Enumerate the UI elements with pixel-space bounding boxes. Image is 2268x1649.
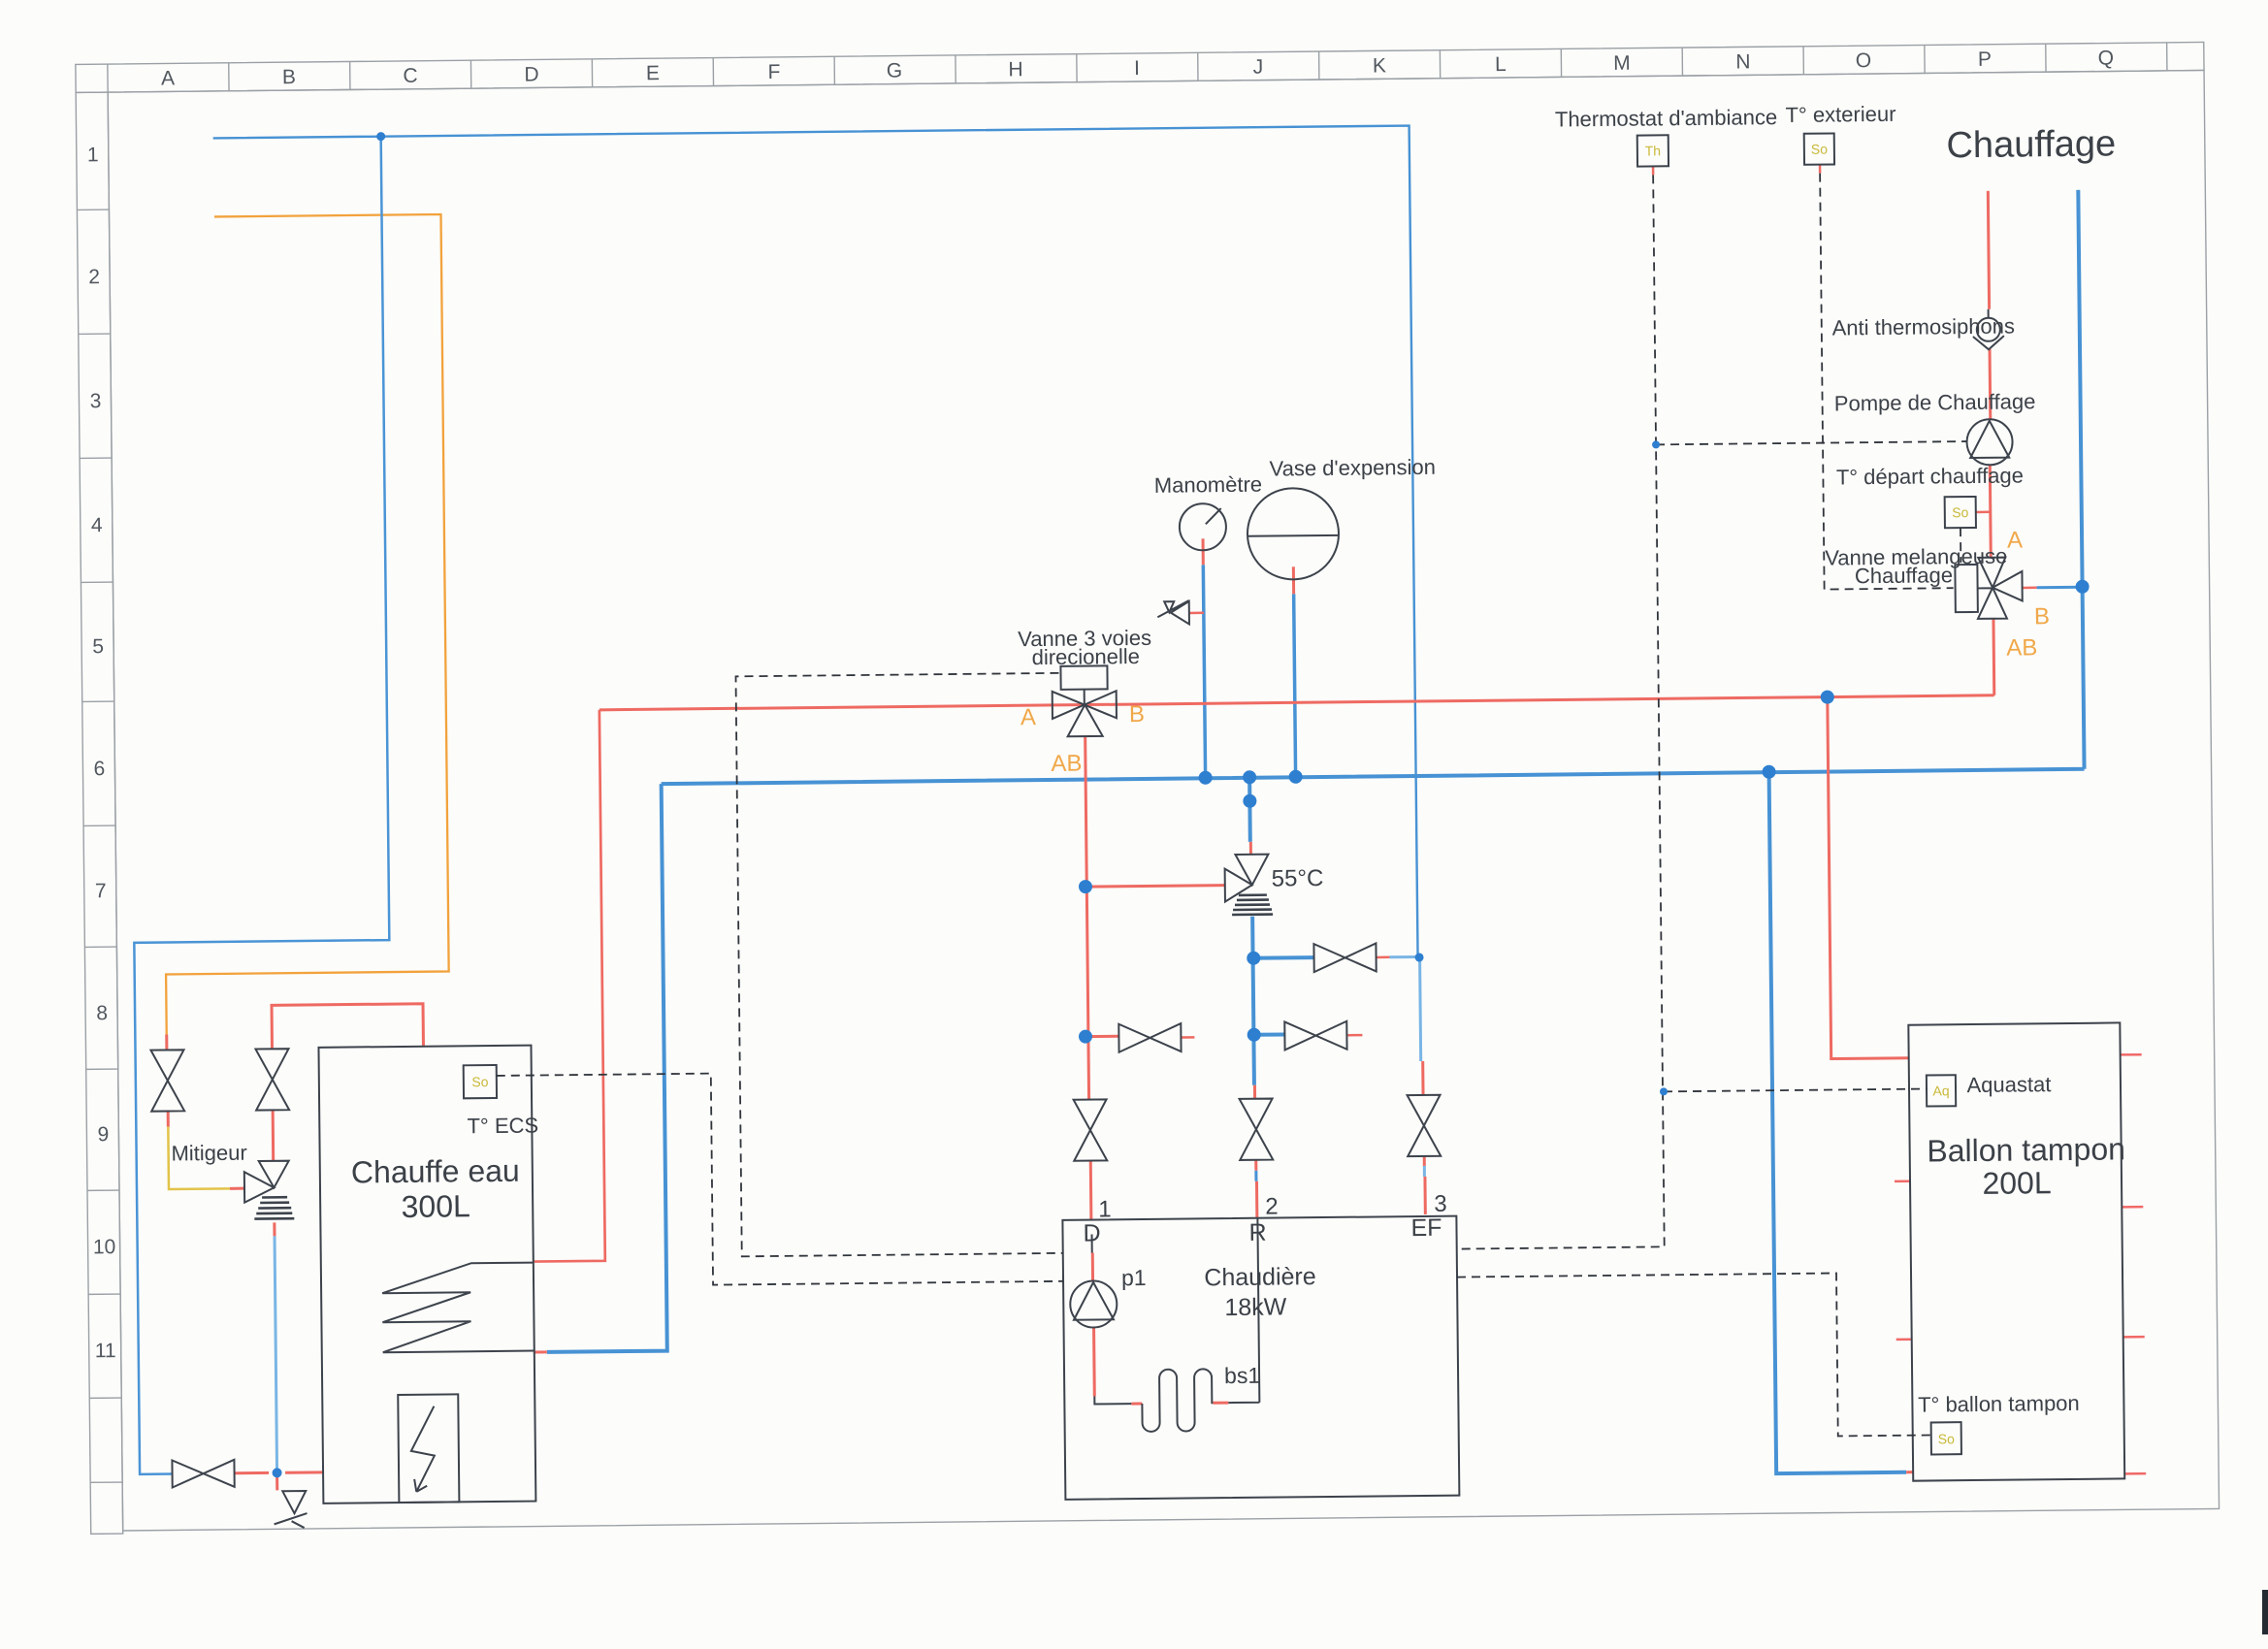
svg-text:200L: 200L	[1982, 1165, 2052, 1201]
svg-text:J: J	[1253, 56, 1264, 79]
electric heater box with lightning	[398, 1394, 459, 1503]
row boundaries	[77, 210, 122, 1482]
control: T depart sensor to actuator	[1960, 528, 1961, 563]
svg-text:So: So	[1952, 504, 1969, 520]
svg-text:Aquastat: Aquastat	[1966, 1072, 2051, 1097]
node: red main at ballon feed	[1821, 690, 1834, 703]
wire: R-column drop from blue main	[1247, 778, 1252, 842]
svg-text:So: So	[1938, 1431, 1956, 1446]
svg-text:So: So	[1811, 142, 1829, 157]
valve bottom-left shutoff	[172, 1460, 234, 1488]
svg-text:9: 9	[97, 1123, 109, 1146]
svg-text:B: B	[1129, 701, 1145, 727]
node: blue main at vase	[1289, 770, 1303, 784]
svg-text:P: P	[1978, 48, 1992, 71]
svg-text:D: D	[1083, 1219, 1100, 1246]
wire: red segment above valve V1	[165, 1035, 168, 1051]
header cell boundaries	[108, 43, 2167, 92]
svg-text:L: L	[1495, 53, 1507, 76]
vase d'expension	[1247, 488, 1340, 580]
tank Ballon tampon 200L	[1908, 1022, 2124, 1480]
wire: vanne melangeuse AB down to red main	[1992, 619, 1995, 695]
node: top line / C drop	[376, 132, 385, 141]
valve boiler 2 (R)	[1240, 1099, 1274, 1160]
valve drain row-1080 R	[1284, 1021, 1346, 1051]
node: bottom-left drain junction	[273, 1468, 282, 1477]
DASHED	[487, 172, 1977, 1450]
svg-text:Chauffage: Chauffage	[1946, 123, 2116, 166]
wire: red feed to ballon tampon	[1828, 696, 1909, 1059]
sensor box So T depart chauffage	[1945, 497, 1976, 528]
svg-text:6: 6	[93, 758, 105, 780]
sensor box So T ECS	[464, 1065, 497, 1098]
control: aquastat branch	[1664, 1089, 1927, 1092]
svg-text:Mitigeur: Mitigeur	[171, 1141, 247, 1166]
svg-text:Pompe de Chauffage: Pompe de Chauffage	[1834, 389, 2036, 415]
svg-text:Ballon tampon: Ballon tampon	[1927, 1131, 2125, 1168]
control: boiler to T ballon tampon sensor	[1457, 1272, 1931, 1439]
wire: ballon tampon side stubs	[1894, 1054, 2147, 1476]
wire: yellow segment below valve to mitigeur	[168, 1126, 230, 1189]
node: thermostat pump branch	[1652, 440, 1660, 448]
wire: red stub ballon lower port	[1906, 1471, 1913, 1473]
manometer	[1180, 503, 1227, 551]
svg-text:H: H	[1008, 58, 1022, 81]
svg-text:D: D	[524, 63, 538, 85]
svg-text:Q: Q	[2098, 47, 2115, 69]
svg-text:Aq: Aq	[1932, 1083, 1949, 1098]
wire: row-1080 D branch stub	[1085, 1035, 1118, 1038]
svg-text:1: 1	[1098, 1196, 1112, 1222]
node: R drop secondary	[1243, 794, 1256, 808]
svg-text:p1: p1	[1121, 1265, 1147, 1290]
anti-thermosiphon check valve	[1977, 318, 2000, 341]
wire: EF column valve stubs to boiler port 3	[1421, 1061, 1424, 1095]
svg-text:Chauffe eau: Chauffe eau	[351, 1153, 520, 1190]
valve boiler 3 (EF)	[1408, 1095, 1442, 1156]
wire: R-column below 55C valve down to valve R	[1252, 917, 1254, 1085]
sensor box Th thermostat d'ambiance	[1637, 135, 1669, 166]
svg-text:55°C: 55°C	[1272, 865, 1324, 892]
wire: boiler internal pump to serpentine	[1092, 1328, 1096, 1397]
svg-text:EF: EF	[1410, 1214, 1442, 1242]
svg-text:direcionelle: direcionelle	[1032, 644, 1141, 669]
node: R column drain branch	[1247, 1028, 1261, 1042]
node: blue main at R drop	[1243, 770, 1256, 784]
wire: drain stub	[275, 1472, 278, 1490]
vanne melangeuse chauffage	[1955, 557, 2023, 619]
svg-text:11: 11	[95, 1340, 116, 1362]
svg-text:T° départ chauffage: T° départ chauffage	[1836, 463, 2024, 489]
svg-text:3: 3	[1434, 1191, 1447, 1217]
control: thermostat d'ambiance line to boiler	[1445, 175, 1665, 1248]
valve V2 (ECS hot column)	[255, 1049, 289, 1110]
pump p1	[1070, 1280, 1118, 1328]
svg-text:8: 8	[96, 1002, 108, 1024]
node: D column 55C branch	[1079, 880, 1092, 893]
svg-text:3: 3	[90, 390, 102, 412]
svg-text:2: 2	[1265, 1194, 1279, 1220]
svg-text:O: O	[1856, 49, 1872, 72]
svg-text:N: N	[1735, 50, 1750, 73]
svg-text:Vase d'expension: Vase d'expension	[1269, 455, 1436, 481]
vanne 3 voies direcionelle	[1052, 665, 1117, 736]
wire: red main distribution line	[599, 695, 1994, 710]
svg-text:AB: AB	[2006, 634, 2037, 661]
valve drain row-1080 D	[1118, 1023, 1181, 1052]
wire: light-blue EF vertical lower part	[1420, 958, 1421, 1061]
serpentine bs1	[1142, 1369, 1213, 1432]
node: R column bypass branch	[1247, 952, 1260, 965]
svg-text:E: E	[646, 62, 660, 84]
boiler Chaudiere 18kW	[1062, 1216, 1459, 1500]
sensor box Aq aquastat	[1927, 1075, 1956, 1106]
wire: red stub coil bottom port	[535, 1350, 547, 1353]
wire: boiler internal serpentine to R	[1213, 1402, 1228, 1405]
wire: vase d'expension stub	[1294, 594, 1296, 776]
column header band	[76, 42, 2204, 92]
wire: B port stub red	[2023, 587, 2037, 590]
svg-text:bs1: bs1	[1224, 1363, 1260, 1388]
wire: blue main horizontal with right riser	[655, 190, 2084, 784]
svg-text:C: C	[403, 65, 417, 87]
svg-text:M: M	[1613, 52, 1631, 75]
wire: row-1080 R branch stub	[1254, 1032, 1285, 1036]
svg-text:G: G	[887, 60, 903, 82]
soupape de securite	[1157, 600, 1189, 625]
wire: red below V2 to mitigeur	[272, 1110, 275, 1160]
wire: 55C hot branch	[1085, 886, 1225, 888]
valve bypass row-1000	[1313, 943, 1376, 972]
wire: B port stub blue	[2037, 586, 2083, 589]
wire: red below V1	[167, 1112, 170, 1127]
drain funnel bottom-left	[274, 1491, 307, 1528]
mitigeur thermostatic 3-way	[244, 1161, 295, 1219]
scan artifact block bottom right	[2262, 1590, 2268, 1634]
svg-text:A: A	[2007, 527, 2023, 553]
wire: row-1000 EF bypass branch	[1253, 955, 1313, 960]
svg-text:1: 1	[87, 144, 99, 166]
svg-text:2: 2	[88, 266, 100, 288]
svg-text:F: F	[767, 61, 780, 83]
wire: AB drop from vanne 3 voies to valve D and boiler port 1	[1085, 736, 1089, 1100]
control: vanne 3 voies to boiler controller	[735, 673, 1064, 1256]
valve boiler 1 (D)	[1074, 1099, 1108, 1160]
node: blue main at ballon return	[1763, 765, 1776, 779]
svg-text:5: 5	[92, 635, 104, 658]
row header strip	[76, 92, 123, 1534]
control: T ECS sensor to boiler	[497, 1070, 1063, 1287]
node: B port riser	[2076, 580, 2090, 594]
node: EF bypass junction	[1415, 953, 1424, 961]
svg-text:Thermostat d'ambiance: Thermostat d'ambiance	[1555, 105, 1777, 131]
svg-text:B: B	[282, 66, 296, 88]
svg-text:Manomètre: Manomètre	[1154, 472, 1263, 498]
svg-text:T° exterieur: T° exterieur	[1785, 102, 1895, 127]
svg-text:B: B	[2034, 603, 2050, 630]
wire: blue C-column drop and left loop to bottom	[126, 137, 395, 1474]
svg-text:Chaudière: Chaudière	[1204, 1263, 1316, 1291]
svg-text:So: So	[471, 1074, 489, 1089]
svg-text:I: I	[1134, 57, 1140, 80]
svg-text:T° ballon tampon: T° ballon tampon	[1918, 1391, 2080, 1417]
node: blue main at manometer	[1199, 771, 1213, 785]
control: thermostat branch to pompe de chauffage	[1656, 441, 1966, 444]
svg-text:18kW: 18kW	[1224, 1293, 1287, 1321]
55C thermostatic valve	[1224, 855, 1273, 916]
svg-text:4: 4	[91, 514, 103, 536]
svg-text:T° ECS: T° ECS	[467, 1114, 538, 1139]
pump Pompe de Chauffage	[1966, 419, 2012, 465]
wire: chauffage supply riser	[1987, 191, 1992, 558]
svg-text:7: 7	[95, 880, 107, 902]
wire: R-column between valve and boiler port 2	[1256, 1160, 1257, 1218]
svg-text:R: R	[1248, 1219, 1266, 1246]
wire: mitigeur outlet down	[273, 1222, 275, 1236]
sensor box So T ballon tampon	[1931, 1422, 1961, 1454]
sensor box So T exterieur	[1804, 133, 1834, 164]
wire: red D-column down to coil top port	[528, 710, 605, 1262]
node: thermostat aquastat branch	[1660, 1087, 1668, 1095]
wire: Th and So sensor stubs	[1653, 165, 1820, 176]
wire: ECS outlet from tank top to valve column	[272, 1004, 423, 1050]
wire: boiler internal D to pump	[1091, 1235, 1093, 1253]
wire: T depart sensor stub	[1976, 511, 1992, 514]
svg-text:K: K	[1373, 54, 1386, 77]
valve V1 (ECS cold column)	[151, 1050, 185, 1111]
node: D column drain branch	[1079, 1030, 1092, 1044]
tank Chauffe eau 300L	[318, 1046, 535, 1503]
svg-text:10: 10	[93, 1236, 116, 1258]
wire: soupape stub	[1189, 612, 1204, 615]
wire: red mitigeur inlet	[230, 1187, 244, 1190]
wire: manometer stub	[1203, 565, 1205, 777]
svg-text:Anti thermosiphons: Anti thermosiphons	[1832, 314, 2016, 340]
wire: blue top supply line and EF drop	[213, 126, 1418, 971]
wire: blue ballon-tampon return branch	[1769, 771, 1907, 1473]
svg-text:300L: 300L	[401, 1188, 470, 1224]
svg-text:A: A	[1021, 704, 1036, 730]
svg-text:A: A	[161, 67, 175, 89]
wire: bottom-left stubs around shutoff valve	[235, 1471, 323, 1474]
wire: blue drop to chauffe-eau coil bottom	[541, 784, 667, 1352]
svg-text:Th: Th	[1645, 143, 1662, 158]
heat-exchanger coil in Chauffe eau	[382, 1263, 535, 1353]
control: T exterieur to vanne melangeuse	[1820, 172, 1953, 589]
svg-text:Chauffage: Chauffage	[1855, 563, 1953, 588]
svg-text:AB: AB	[1051, 751, 1082, 777]
wire: orange cold-feed loop top-left	[158, 214, 449, 1035]
